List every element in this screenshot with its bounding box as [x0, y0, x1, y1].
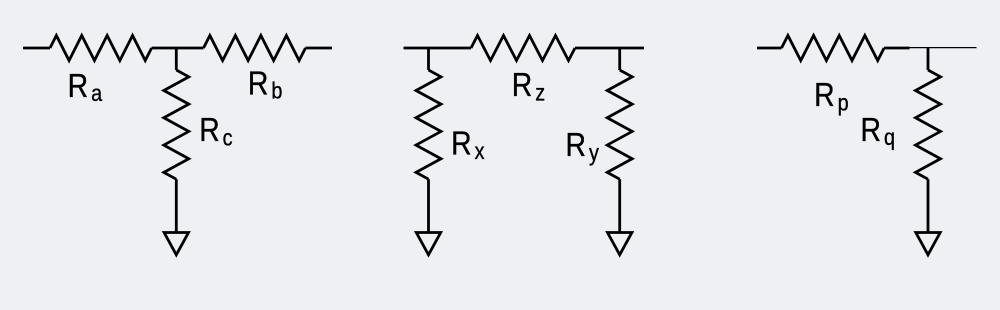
wire Ry to ground — [618, 179, 621, 232]
wire Rq to ground — [927, 179, 930, 232]
wire thin output circuit 3 — [910, 47, 977, 49]
wire Rx to ground — [427, 179, 430, 232]
svg-text:Rz: Rz — [512, 66, 545, 106]
resistor Ra — [50, 36, 152, 61]
ground symbol below Ry — [608, 233, 632, 255]
resistor Rq — [916, 70, 941, 179]
svg-text:Rx: Rx — [451, 124, 485, 164]
resistor Rc — [164, 70, 189, 179]
ground symbol circuit 3 — [916, 233, 940, 255]
svg-text:Ra: Ra — [68, 67, 103, 107]
wire junction lead of Rc — [175, 48, 178, 70]
svg-text:Ry: Ry — [566, 126, 600, 166]
wire junction lead of Rq — [927, 48, 930, 70]
wire between Ra and Rb through node T — [152, 47, 204, 50]
wire junction lead of Rx — [427, 48, 430, 70]
svg-text:Rc: Rc — [199, 111, 233, 151]
resistor Rb — [204, 36, 306, 61]
svg-text:Rp: Rp — [814, 76, 849, 116]
wire junction lead of Ry — [618, 48, 621, 70]
resistor Rz — [471, 36, 575, 61]
wire left stub circuit 3 — [757, 47, 782, 50]
wire top bus circuit 2 (right half) — [575, 47, 644, 50]
resistor Ry — [607, 70, 632, 179]
wire Rc to ground — [175, 179, 178, 232]
wire right stub circuit 1 — [306, 47, 333, 50]
svg-text:Rb: Rb — [248, 64, 283, 104]
resistor Rx — [416, 70, 441, 179]
wire left stub circuit 1 — [23, 47, 50, 50]
wire Rp to node — [884, 47, 909, 50]
svg-text:Rq: Rq — [861, 111, 896, 151]
ground symbol circuit 1 — [164, 233, 188, 255]
resistor Rp — [782, 36, 885, 61]
ground symbol below Rx — [416, 233, 440, 255]
wire top bus circuit 2 (left half) — [404, 47, 472, 50]
